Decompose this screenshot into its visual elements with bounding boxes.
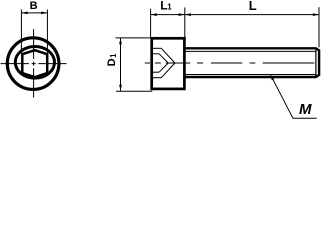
L1 arrow right xyxy=(179,13,185,16)
B extension line right xyxy=(46,10,48,54)
shank outline with chamfered end xyxy=(186,48,320,77)
D1 dimension line xyxy=(120,38,122,91)
outer circle (head OD) xyxy=(7,38,59,90)
socket cone outer lower xyxy=(161,63,175,78)
L1 dimension line xyxy=(151,14,185,16)
D1 extension line bottom xyxy=(116,90,152,92)
socket wall line upper inner xyxy=(153,53,160,55)
thread line top xyxy=(186,50,316,52)
horizontal centerline xyxy=(1,63,67,65)
socket cone inner lower xyxy=(159,63,168,72)
B arrow right xyxy=(41,12,47,15)
svg-text:D: D xyxy=(106,58,118,66)
axis centerline xyxy=(145,62,314,64)
socket wall line upper outer xyxy=(153,47,162,49)
L arrow right xyxy=(313,13,319,16)
hex socket xyxy=(22,50,47,77)
svg-text:M: M xyxy=(299,101,312,118)
M leader line xyxy=(271,75,317,118)
D1 extension line top xyxy=(116,37,152,39)
svg-text:L: L xyxy=(249,0,257,13)
label D1 (rotated) xyxy=(106,53,118,67)
L dimension line xyxy=(185,14,319,16)
head outline xyxy=(152,38,185,89)
socket wall line lower outer xyxy=(153,77,162,79)
svg-text:B: B xyxy=(30,0,38,12)
L arrow left xyxy=(185,13,191,16)
socket cone inner upper xyxy=(159,54,168,63)
L extension line right xyxy=(318,7,320,47)
socket wall line lower inner xyxy=(153,71,160,73)
inner circle (socket chamfer) xyxy=(15,47,54,79)
end chamfer vertical line xyxy=(315,48,317,77)
B arrow left xyxy=(21,12,27,15)
L1 arrow left xyxy=(151,13,157,16)
thread line bottom xyxy=(186,74,316,76)
L1/L shared extension line xyxy=(184,7,186,37)
L1 extension line left xyxy=(150,9,152,37)
svg-text:1: 1 xyxy=(109,53,118,58)
M leader arrow xyxy=(270,74,274,80)
B extension line left xyxy=(20,10,22,54)
svg-text:1: 1 xyxy=(167,3,172,12)
vertical centerline xyxy=(33,29,35,98)
B dimension line xyxy=(21,12,47,14)
D1 arrow up xyxy=(119,38,122,44)
D1 arrow down xyxy=(119,85,122,91)
socket cone outer upper xyxy=(161,48,175,63)
